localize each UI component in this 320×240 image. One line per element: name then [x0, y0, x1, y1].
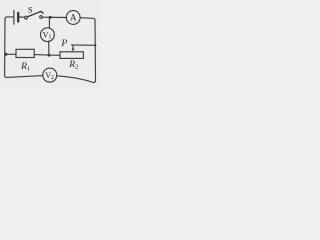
rheostat R2 box: [60, 52, 83, 59]
paper background: [0, 0, 100, 88]
resistor R1 box: [16, 49, 34, 57]
voltmeter V2: [43, 68, 57, 82]
junction node on top wire: [49, 16, 52, 19]
switch S: right contact: [40, 16, 43, 19]
wire: R1 to center junction: [34, 54, 49, 57]
ammeter A: [66, 11, 80, 25]
wire: V2 to bottom right corner: [57, 76, 94, 83]
wire: bottom left to V2: [7, 76, 43, 78]
wire: switch to ammeter: [42, 16, 66, 18]
junction node slider wire at right wire: [94, 44, 96, 46]
rheostat slider arrowhead: [72, 49, 75, 52]
paper grain: [0, 0, 100, 88]
wire: V1 top stub from top wire: [48, 17, 50, 28]
junction node mid branch below V1: [48, 54, 51, 57]
voltmeter V1: [41, 28, 55, 42]
svg-text:P: P: [60, 39, 67, 49]
wire: left vertical: [5, 19, 7, 77]
battery cell: long plate: [13, 10, 15, 24]
svg-text:A: A: [70, 13, 77, 23]
wire: top-left lead from left wire to battery: [5, 17, 13, 19]
battery cell: short thick plate: [17, 13, 19, 22]
wire: V1 bottom stub to mid branch: [48, 41, 50, 55]
wire: battery to switch: [20, 16, 25, 18]
wire: rheostat slider wire to right wire: [72, 44, 96, 46]
rheostat slider arrow shaft: [72, 45, 74, 50]
junction node on left wire: [4, 53, 7, 56]
wire: center junction to R2: [49, 54, 60, 56]
switch S: blade: [27, 11, 43, 16]
wire: ammeter to top-right corner, down right side: [80, 18, 95, 83]
svg-text:S: S: [28, 5, 33, 15]
wire: mid branch left lead: [6, 53, 16, 55]
switch S: left contact: [25, 16, 28, 19]
